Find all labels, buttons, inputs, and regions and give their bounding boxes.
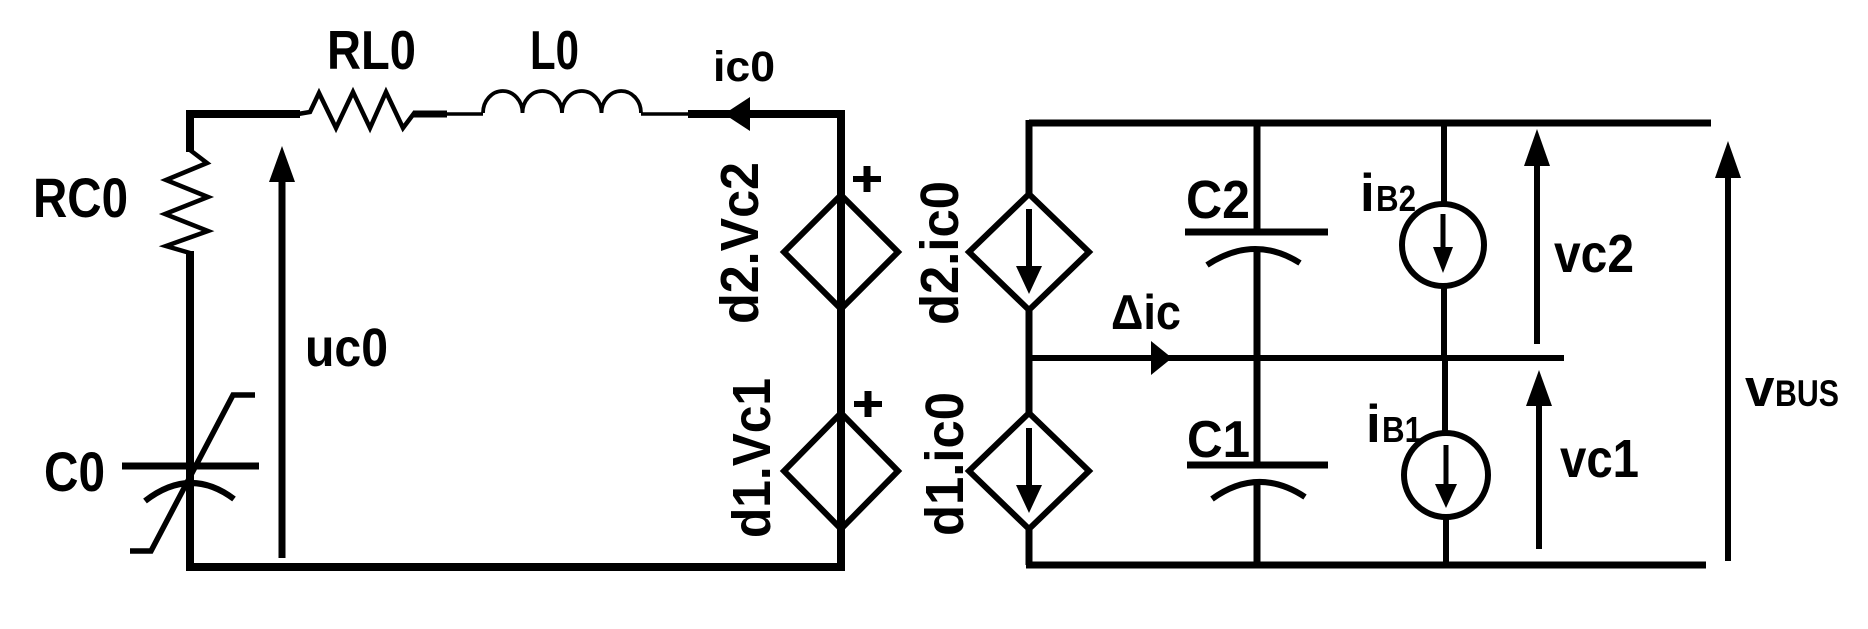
svg-text:L0: L0 — [530, 19, 579, 81]
wire: capacitor branch lower — [1254, 484, 1261, 565]
inductor L0 — [483, 91, 641, 113]
capacitor C2 top plate — [1185, 229, 1328, 236]
wire: iB1 branch upper — [1442, 357, 1448, 434]
svg-text:d1.ic0: d1.ic0 — [915, 392, 975, 536]
wire: iB2 branch upper — [1441, 120, 1447, 206]
svg-text:B1: B1 — [1382, 409, 1422, 450]
svg-text:i: i — [1360, 164, 1375, 223]
svg-text:RL0: RL0 — [327, 19, 416, 81]
arrow vBUS — [1725, 174, 1731, 561]
capacitor C0 curved plate — [145, 483, 234, 501]
capacitor C1 curved plate — [1212, 482, 1305, 499]
arrow vc2 — [1534, 162, 1540, 344]
wire: left branch below RC0 — [186, 251, 194, 567]
capacitor C0 variable arrow diagonal — [130, 395, 255, 551]
current source iB1 — [1404, 433, 1488, 517]
wire: left circuit left branch top — [186, 110, 194, 152]
wire: left circuit bottom — [186, 563, 845, 571]
wire: between RL0 and L0 — [413, 111, 447, 118]
svg-text:C2: C2 — [1186, 170, 1250, 230]
wire: left circuit top-left segment — [190, 110, 300, 118]
svg-text:d2.Vc2: d2.Vc2 — [710, 162, 770, 324]
wire: right branch of left circuit (through sources) — [837, 110, 845, 567]
svg-text:vc1: vc1 — [1560, 429, 1639, 489]
svg-text:RC0: RC0 — [33, 166, 128, 229]
svg-text:BUS: BUS — [1775, 373, 1839, 414]
wire: right circuit bottom — [1026, 562, 1706, 569]
svg-text:C0: C0 — [44, 440, 105, 503]
capacitor C0 top plate — [122, 463, 259, 470]
wire: right circuit left branch — [1026, 120, 1033, 198]
svg-text:d1.Vc1: d1.Vc1 — [722, 378, 782, 538]
wire: between current source diamonds — [1026, 308, 1033, 416]
arrow vc1 — [1536, 400, 1542, 549]
wire: after L0 — [641, 112, 690, 116]
wire: right circuit top — [1029, 120, 1711, 127]
arrowhead delta ic — [1151, 341, 1172, 375]
resistor RL0 — [298, 92, 415, 128]
svg-text:d2.ic0: d2.ic0 — [910, 181, 970, 325]
wire: capacitor branch upper — [1254, 120, 1261, 232]
svg-text:Δic: Δic — [1111, 286, 1181, 340]
wire: iB2 branch lower — [1441, 284, 1447, 357]
capacitor C1 top plate — [1187, 462, 1328, 469]
arrowhead ic0 (current direction) — [724, 97, 750, 131]
dependent current source d2.ic0 — [969, 194, 1089, 310]
resistor RC0 — [165, 150, 208, 253]
capacitor C2 curved plate — [1207, 249, 1300, 265]
dependent current source d1.ic0 — [969, 413, 1089, 529]
wire: capacitor branch middle — [1254, 248, 1261, 465]
plus sign of d1.Vc1 — [854, 401, 882, 407]
svg-text:C1: C1 — [1187, 411, 1250, 469]
arrow uc0 — [279, 178, 286, 558]
svg-text:B2: B2 — [1376, 178, 1416, 219]
current source iB2 — [1402, 204, 1484, 286]
svg-text:v: v — [1745, 359, 1775, 418]
svg-text:vc2: vc2 — [1554, 224, 1634, 284]
wire: below d1.ic0 — [1026, 527, 1033, 565]
plus sign of d2.Vc2 — [853, 176, 881, 182]
svg-text:i: i — [1366, 395, 1381, 454]
svg-text:uc0: uc0 — [305, 318, 388, 378]
svg-text:ic0: ic0 — [713, 43, 775, 91]
wire: iB1 branch lower — [1443, 517, 1449, 565]
wire: middle horizontal (delta ic) — [1029, 355, 1564, 361]
dependent voltage source d1.Vc1 — [784, 413, 898, 529]
dependent voltage source d2.Vc2 — [784, 195, 898, 309]
